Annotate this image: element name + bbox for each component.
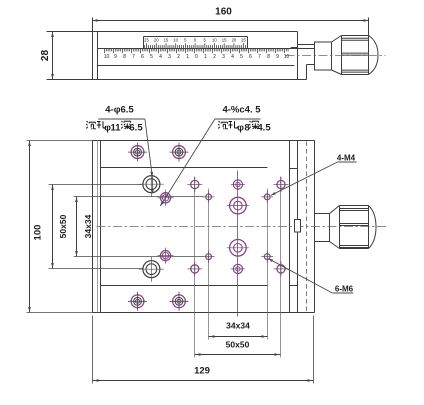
svg-text:20: 20 — [154, 38, 159, 43]
counterbore hole phi8 lower — [160, 251, 170, 261]
dimension 50x50 bottom line — [195, 354, 281, 356]
body inner line — [98, 65, 295, 67]
svg-text:7: 7 — [132, 54, 135, 60]
svg-text:9: 9 — [114, 54, 117, 60]
svg-text:10: 10 — [212, 38, 217, 43]
vernier scale ticks — [144, 45, 146, 48]
svg-text:6: 6 — [249, 54, 252, 60]
svg-text:10: 10 — [104, 54, 110, 60]
hole 34sq bottom-right — [264, 254, 270, 260]
counterbore hole phi11 lower — [143, 261, 160, 278]
dimension 50x50 left line — [52, 185, 54, 269]
svg-text:8: 8 — [267, 54, 270, 60]
svg-text:129: 129 — [194, 366, 210, 377]
svg-text:10: 10 — [284, 54, 290, 60]
svg-text:100: 100 — [33, 225, 44, 241]
hole 34sq bottom-left — [206, 254, 212, 260]
micrometer bracket — [298, 44, 315, 46]
label counterbore phi11 deep 6.5 — [87, 121, 88, 122]
svg-text:9: 9 — [276, 54, 279, 60]
spindle tip — [291, 47, 298, 49]
screw hole bottom-right — [173, 295, 186, 308]
svg-text:15: 15 — [164, 38, 169, 43]
main scale ticks — [104, 49, 106, 54]
svg-text:34x34: 34x34 — [83, 214, 93, 238]
knob cone (plan) — [330, 206, 340, 214]
label 4-phi6.5 underline — [98, 118, 145, 120]
svg-text:0: 0 — [195, 54, 198, 60]
hole 50sq top-left — [191, 180, 199, 188]
svg-text:4-%c4. 5: 4-%c4. 5 — [222, 105, 261, 116]
leader 4-M4 — [338, 161, 357, 163]
svg-text:4: 4 — [159, 54, 162, 60]
svg-text:10: 10 — [173, 38, 178, 43]
column extension 34 right — [267, 189, 269, 340]
leader to phi8 hole — [160, 119, 215, 206]
svg-text:φ: φ — [237, 123, 244, 134]
svg-text:2: 2 — [177, 54, 180, 60]
svg-text:6-M6: 6-M6 — [335, 285, 354, 294]
dimension 34x34 bottom line — [209, 336, 268, 338]
leader 6-M6 — [332, 292, 353, 294]
knob shaft (plan) — [315, 213, 330, 215]
hole 34sq top-left — [206, 194, 212, 200]
center hole lower — [230, 240, 247, 257]
svg-text:4.5: 4.5 — [257, 123, 271, 134]
column extension 50 right — [280, 177, 282, 358]
dimension 160 line — [93, 20, 369, 22]
carriage outline horizontals — [101, 167, 268, 169]
micrometer clamp block — [315, 42, 332, 70]
center column hole top — [233, 180, 242, 189]
svg-text:50x50: 50x50 — [226, 340, 250, 350]
hole pattern vertical centerline — [237, 171, 239, 317]
hole 50sq top-right — [277, 180, 285, 188]
micrometer tab (plan) — [295, 220, 301, 233]
plan view outer plate — [93, 140, 315, 142]
svg-text:15: 15 — [222, 38, 227, 43]
hole 34sq top-right — [264, 194, 270, 200]
column extension 34 left — [208, 189, 210, 340]
dimension 34x34 left line — [76, 197, 78, 257]
vernier box — [144, 36, 248, 38]
screw hole bottom-left — [131, 295, 144, 308]
hole 50sq bottom-right — [277, 265, 285, 273]
center column hole bottom — [233, 264, 242, 273]
svg-text:1: 1 — [186, 54, 189, 60]
counterbore hole phi11 upper — [143, 176, 160, 193]
side plate dashed centerline — [306, 142, 308, 312]
dimension 129 line — [93, 380, 314, 382]
top view centerline — [286, 55, 386, 57]
svg-text:160: 160 — [215, 7, 232, 18]
svg-text:50x50: 50x50 — [58, 214, 68, 238]
hole 50sq bottom-left — [191, 265, 199, 273]
svg-text:25: 25 — [144, 38, 149, 43]
carriage left edge double line — [92, 32, 94, 80]
svg-text:7: 7 — [258, 54, 261, 60]
column extension 50 left — [194, 177, 196, 358]
svg-text:5: 5 — [240, 54, 243, 60]
plan left rail lines — [97, 141, 99, 313]
svg-text:28: 28 — [40, 50, 51, 62]
top view body outline — [47, 31, 298, 33]
row extension line 34x34 bottom — [74, 256, 204, 258]
label counterbore phi8 deep 4.5 — [219, 121, 220, 122]
svg-text:1: 1 — [204, 54, 207, 60]
screw hole top-left — [131, 146, 144, 159]
knob barrel (plan) — [340, 205, 369, 207]
row extension line 50x50 bottom — [49, 268, 143, 270]
label 4-%c4.5 underline — [215, 118, 261, 120]
svg-text:20: 20 — [231, 38, 236, 43]
svg-text:8: 8 — [123, 54, 126, 60]
plan right rail lines — [289, 141, 291, 313]
counterbore hole phi8 upper — [160, 193, 170, 203]
svg-text:4-φ6.5: 4-φ6.5 — [105, 105, 134, 116]
svg-text:34x34: 34x34 — [226, 321, 250, 331]
dimension 28 line with arrows — [52, 32, 54, 80]
knob barrel (top view) — [342, 35, 369, 37]
svg-text:8: 8 — [244, 123, 249, 134]
svg-text:2: 2 — [213, 54, 216, 60]
svg-text:6.5: 6.5 — [129, 123, 143, 134]
svg-text:4-M4: 4-M4 — [337, 154, 356, 163]
knob cone (top view) — [332, 36, 342, 43]
leader to phi11 hole — [145, 119, 152, 177]
svg-text:6: 6 — [141, 54, 144, 60]
svg-text:11: 11 — [110, 123, 121, 134]
row extension line 50x50 top — [49, 184, 143, 186]
center hole upper — [230, 197, 247, 214]
dimension 100 line — [29, 141, 31, 313]
svg-text:5: 5 — [150, 54, 153, 60]
svg-text:25: 25 — [241, 38, 246, 43]
svg-text:4: 4 — [231, 54, 234, 60]
plan horizontal centerline — [97, 226, 388, 228]
row extension line 34x34 top — [74, 196, 204, 198]
screw hole top-right — [173, 146, 186, 159]
main scale top line — [98, 48, 315, 50]
svg-text:3: 3 — [222, 54, 225, 60]
svg-text:3: 3 — [168, 54, 171, 60]
